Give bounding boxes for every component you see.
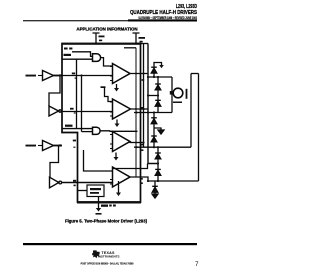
junction rail4 chain xyxy=(157,180,159,182)
junction rail3 chain xyxy=(157,146,159,148)
diode X5 xyxy=(155,153,161,159)
T1 input stubs xyxy=(110,67,113,81)
wire inverter4 out xyxy=(62,182,113,184)
driver T2 xyxy=(113,99,131,119)
gnd arrow below T3 xyxy=(115,153,117,158)
pin label 2Y xyxy=(141,107,143,109)
buffer 3 xyxy=(43,141,54,151)
gate1 out wire xyxy=(101,58,113,66)
pin label 1A xyxy=(72,73,75,75)
rail4 xyxy=(148,180,199,182)
header rule xyxy=(23,20,135,21)
wire buffer3 out xyxy=(54,145,63,147)
EN1 wire xyxy=(72,52,93,57)
diode X4b xyxy=(151,136,157,142)
EN bus vertical 1 xyxy=(76,59,78,128)
junction ground stem xyxy=(97,201,99,203)
driver T3 xyxy=(113,132,131,152)
junction bus/T3 out xyxy=(135,141,137,143)
branch to gnd arrow xyxy=(154,128,161,130)
rail2 xyxy=(134,112,172,114)
junction rail3 at bus xyxy=(135,146,137,148)
thermal block xyxy=(87,185,104,197)
gnd arrow below T1 xyxy=(116,84,118,88)
junction T3 out at vertical A xyxy=(142,141,144,143)
inverter 2 xyxy=(49,106,59,116)
svg-text:APPLICATION INFORMATION: APPLICATION INFORMATION xyxy=(76,26,138,31)
junction rail2 chain xyxy=(153,111,155,113)
junction diode chain at rail1 xyxy=(157,76,159,78)
chip ground stem xyxy=(98,197,100,209)
wire buffer1 out xyxy=(54,75,63,77)
buffer1 line to T1 lower input xyxy=(61,75,113,77)
upper snubber: VCC2 tap bracket xyxy=(154,63,162,78)
junction motor node 1Y xyxy=(157,94,159,96)
ground arrow below X7 xyxy=(152,194,158,198)
mid wire to motor node xyxy=(148,95,158,97)
motor base bar xyxy=(173,102,182,104)
chip bottom edge thick xyxy=(77,201,141,203)
motor left lead xyxy=(170,91,174,95)
T4 input stubs xyxy=(110,171,113,184)
power VCC2 symbol xyxy=(133,33,140,44)
junction buffer1 output node xyxy=(59,74,61,76)
VCC1 label xyxy=(99,36,105,38)
wire buffer3 to inverter4 xyxy=(50,146,59,178)
diode X3 xyxy=(155,100,161,106)
internal VCC2 bus xyxy=(135,48,137,177)
junction mid wire at VCC2 feed xyxy=(147,94,149,96)
junction VCC2 at top rail xyxy=(135,42,137,44)
motor riser left xyxy=(190,74,192,148)
gnd arrow below T2 xyxy=(116,120,118,124)
svg-text:INSTRUMENTS: INSTRUMENTS xyxy=(98,255,120,259)
thermal feed stub xyxy=(78,190,87,192)
junction node 3Y corner xyxy=(157,162,159,164)
svg-text:7: 7 xyxy=(195,262,199,268)
header title line 1 xyxy=(176,3,198,9)
svg-text:SLRS008B − SEPTEMBER 1986 − RE: SLRS008B − SEPTEMBER 1986 − REVISED JUNE… xyxy=(138,15,197,20)
VCC2 label xyxy=(139,37,146,39)
junction T1 out at vertical A xyxy=(142,72,144,74)
driver T4 xyxy=(113,167,131,187)
wire buffer1 to inverter2 xyxy=(49,76,60,107)
T2 input stubs xyxy=(110,102,113,116)
junction bus/T2 out xyxy=(135,108,137,110)
pin label 3,4EN xyxy=(65,125,73,127)
T4 top input vcc link xyxy=(113,164,148,169)
input 1 wire xyxy=(26,75,37,77)
T3 input stubs xyxy=(110,135,113,149)
diode X4 xyxy=(151,118,157,124)
driver T1 xyxy=(113,64,131,84)
gnd label xyxy=(101,205,108,207)
vert x172 xyxy=(171,77,173,113)
T2 top input route xyxy=(101,86,106,88)
pin label 3Y xyxy=(141,144,144,146)
gate 3 xyxy=(93,127,101,134)
power VCC1 symbol xyxy=(93,33,100,44)
T1 out wire xyxy=(130,73,148,75)
svg-text:POST OFFICE BOX 655303 • DALLA: POST OFFICE BOX 655303 • DALLAS, TEXAS 7… xyxy=(81,261,134,266)
ch4 top input route xyxy=(84,150,113,171)
inverter 4 xyxy=(50,177,59,188)
diode chain x158 upper xyxy=(157,77,159,113)
input 2 wire xyxy=(26,145,37,147)
junction rail2 at bus xyxy=(135,111,137,113)
EN bus vertical 2 xyxy=(81,76,83,132)
gate 1 xyxy=(93,54,101,62)
junction bus/T1 out xyxy=(135,72,137,74)
lower diode chain xyxy=(157,147,159,181)
tiny labels as dashes xyxy=(64,36,146,207)
motor circle xyxy=(173,88,183,98)
pin label 16 xyxy=(64,48,68,50)
T2 out wire xyxy=(131,108,149,110)
diode X1 xyxy=(151,67,157,73)
gnd chain below rail4 xyxy=(154,181,156,194)
motor brush bar xyxy=(186,89,188,99)
gnd arrow below T4 xyxy=(118,181,120,193)
pin label 1,2EN xyxy=(64,54,72,56)
diode X6 xyxy=(155,169,161,175)
chip top edge thick xyxy=(62,43,142,45)
junction rail4 at T4 out xyxy=(147,180,149,182)
rail1 xyxy=(148,76,172,78)
diode X2 xyxy=(155,84,161,90)
gate3 out wire xyxy=(101,130,110,133)
header title line 2 xyxy=(130,10,198,16)
thermal block text xyxy=(90,188,101,190)
junction rail2 at VCC2 feed xyxy=(147,111,149,113)
section heading xyxy=(76,26,138,31)
pin label 2A xyxy=(70,108,74,110)
pin label 4A xyxy=(73,180,76,182)
svg-text:Figure 5. Two-Phase Motor Driv: Figure 5. Two-Phase Motor Driver (L293) xyxy=(65,218,148,223)
svg-text:L293, L293D: L293, L293D xyxy=(176,3,198,9)
junction rail1 at VCC2 feed xyxy=(147,76,149,78)
buffer 1 xyxy=(43,71,54,81)
diode X7 xyxy=(152,186,158,192)
chip outline (notched L-shape) xyxy=(62,44,141,203)
junction T2 out at vertical A xyxy=(142,108,144,110)
motor riser right xyxy=(198,74,200,182)
pin label 4Y xyxy=(140,178,143,180)
junction rail3 diode X4b xyxy=(153,146,155,148)
address line xyxy=(81,261,134,266)
ext vertical B thick VCC2 feed xyxy=(148,44,158,164)
junction buffer3 output node xyxy=(59,144,61,146)
ext vertical A xyxy=(143,44,145,148)
TI bug xyxy=(92,250,99,258)
footer rule xyxy=(23,243,197,245)
lower chain from rail2 xyxy=(153,113,155,148)
doc number line xyxy=(138,15,197,20)
junction VCC1 at top rail xyxy=(95,42,97,44)
T4 out wire xyxy=(130,177,148,181)
pin label 3A xyxy=(73,140,76,142)
gate3 input wires xyxy=(62,128,93,130)
T3 out wire xyxy=(130,142,144,144)
rail3 xyxy=(134,146,191,148)
junction diode X1 at rail1 xyxy=(153,76,155,78)
junction bus2 tap xyxy=(80,74,82,76)
bus feeder dash xyxy=(124,47,136,49)
wire VCC2 to right verticals xyxy=(136,43,148,45)
riser top bar xyxy=(191,73,199,75)
wire inverter2 out xyxy=(61,111,112,113)
gate1 lower input wire xyxy=(62,58,93,60)
pin label 1Y xyxy=(142,79,145,81)
